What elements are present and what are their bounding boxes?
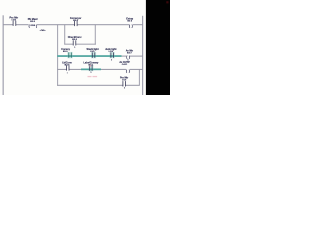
svg-text:<745>: <745> xyxy=(40,29,47,32)
coil OTE Ax OUTP (row B) xyxy=(119,61,130,73)
red indicator dot top-right xyxy=(166,1,168,3)
svg-text:O:2/1: O:2/1 xyxy=(122,64,128,66)
svg-text:B3:5: B3:5 xyxy=(63,51,69,53)
black side panel xyxy=(146,0,170,95)
svg-text:B3:5: B3:5 xyxy=(73,20,79,22)
svg-text:I:1/5: I:1/5 xyxy=(90,51,95,53)
svg-text:1: 1 xyxy=(74,47,76,49)
one-shot ONS B3:5 (main rung) xyxy=(28,18,47,32)
svg-text:): ) xyxy=(129,69,130,73)
svg-text:B3:2: B3:2 xyxy=(72,39,78,41)
wire main rung xyxy=(3,24,143,25)
svg-text:B3:6: B3:6 xyxy=(127,21,133,23)
svg-text:I:1/6: I:1/6 xyxy=(109,51,114,53)
contact XIC Junk light (row A, energized) xyxy=(105,48,116,62)
forced-bit pink marker (row B) xyxy=(90,65,92,66)
coil OTE Estop (main rung) xyxy=(126,17,133,28)
wire row C xyxy=(57,85,140,86)
svg-text:1: 1 xyxy=(90,72,92,74)
contact XIC Convey (row A, energized) xyxy=(61,48,72,58)
contact XIC Prx Mtr (main rung) xyxy=(9,16,18,26)
svg-text:): ) xyxy=(129,55,130,59)
wire inner branch left vertical xyxy=(63,24,66,44)
contact XIC Prx Mtr (row C) xyxy=(120,77,128,90)
contact XIC Stack light (row A, energized) xyxy=(87,48,99,58)
wire row A energized (teal) xyxy=(57,55,121,57)
wire row B xyxy=(57,69,142,70)
wire inner branch right vertical xyxy=(94,24,97,44)
svg-text:I:1/0: I:1/0 xyxy=(122,80,127,82)
left power rail xyxy=(3,15,4,95)
wire inner branch bottom xyxy=(64,43,96,46)
wire row A gray tail to coil and rail xyxy=(122,56,143,57)
wire output-branch left vertical xyxy=(56,24,59,85)
contact XIC Conveyor (main rung) xyxy=(70,17,82,26)
svg-text:1: 1 xyxy=(124,88,126,90)
coil OTE Av Mtr (row A) xyxy=(126,50,133,62)
svg-text:1: 1 xyxy=(111,60,113,62)
contact XIC CheckConv (inner branch) xyxy=(68,36,82,49)
wire row C right vertical (rejoin to row B) xyxy=(138,69,141,85)
contact XIC LblConv (row B) xyxy=(62,61,72,74)
svg-text:B3:5: B3:5 xyxy=(30,21,36,23)
pink cross-ref dots below row B xyxy=(88,76,92,77)
svg-text:): ) xyxy=(132,24,133,28)
wire row B energized segment (teal) xyxy=(81,69,101,71)
svg-text:B3:1: B3:1 xyxy=(89,64,95,66)
svg-text:B3:9: B3:9 xyxy=(65,64,71,66)
svg-text:I:1/0: I:1/0 xyxy=(12,19,17,21)
right power rail xyxy=(142,16,143,95)
svg-text:B3:7: B3:7 xyxy=(127,53,133,55)
svg-text:ONS: ONS xyxy=(30,25,35,27)
svg-text:1: 1 xyxy=(67,72,69,74)
svg-text:): ) xyxy=(36,24,37,28)
contact XIC LabelConvey (row B, energized) xyxy=(83,61,99,71)
